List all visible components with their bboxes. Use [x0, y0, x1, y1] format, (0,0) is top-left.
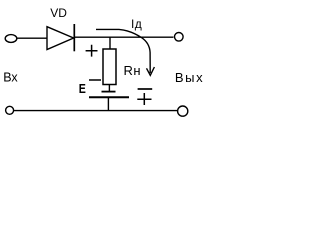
diode VD triangle	[47, 27, 74, 50]
wire: battery to bottom wire	[107, 97, 109, 110]
battery E long plate (positive)	[89, 96, 129, 98]
plus sign right of battery	[137, 93, 151, 105]
svg-text:E: E	[79, 81, 86, 96]
svg-text:Вых: Вых	[175, 70, 204, 85]
svg-text:VD: VD	[50, 6, 67, 20]
svg-text:Rн: Rн	[124, 63, 142, 78]
plus sign left (polarity top)	[86, 45, 98, 57]
resistor Rn rectangle	[103, 49, 116, 85]
input terminal top-left	[5, 35, 17, 43]
wire: branch from top wire to resistor	[109, 37, 111, 49]
wire: resistor bottom to battery	[108, 85, 110, 92]
minus sign right of battery	[138, 88, 153, 90]
minus sign left (polarity bottom)	[89, 79, 101, 81]
wire: diode cathode to right terminal	[75, 36, 174, 38]
output terminal bottom-right	[178, 106, 188, 116]
wire: left terminal to diode anode	[17, 37, 47, 39]
battery E short plate (negative)	[102, 91, 116, 93]
input terminal bottom-left	[6, 106, 14, 114]
bottom wire	[14, 110, 177, 112]
diode VD cathode bar	[73, 24, 75, 51]
output terminal top-right	[175, 33, 184, 42]
svg-text:Вх: Вх	[3, 71, 18, 85]
current arrow head	[147, 67, 155, 75]
svg-text:Iд: Iд	[131, 17, 142, 31]
current arrow Id curved	[96, 29, 150, 73]
